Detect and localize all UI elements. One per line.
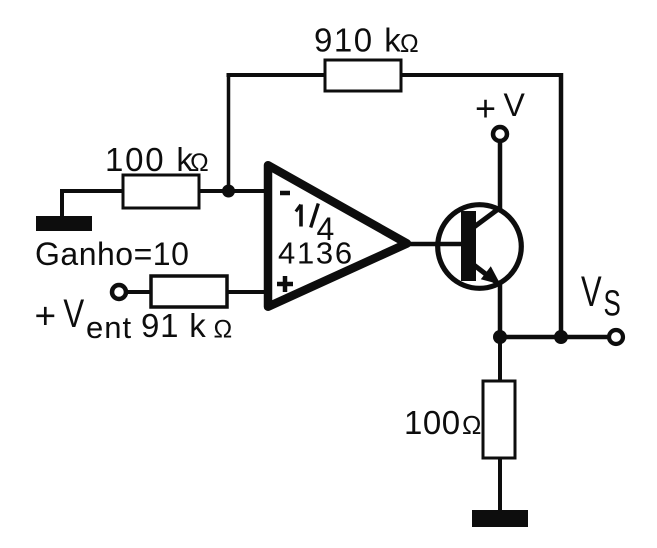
svg-text:910 k: 910 k — [314, 22, 402, 59]
wire 100 ohm resistor to ground — [498, 457, 502, 512]
resistor 91 kOhm (non-inverting input) — [151, 276, 227, 307]
label 910 kOhm — [314, 22, 419, 59]
svg-text:V: V — [63, 291, 84, 336]
wire feedback top horizontal — [227, 73, 564, 77]
label 1/4 — [299, 205, 303, 227]
resistor 910 kOhm (feedback) — [325, 60, 401, 91]
terminal +V supply — [493, 127, 507, 141]
svg-text:V: V — [504, 87, 526, 123]
base bar — [461, 211, 476, 281]
wire inverting node vertical riser — [227, 73, 231, 192]
op-amp U1 1/4 4136 — [268, 165, 407, 307]
terminal input Vent — [112, 285, 126, 299]
svg-text:Ω: Ω — [214, 316, 233, 344]
svg-text:S: S — [604, 283, 621, 323]
emitter arrowhead — [481, 266, 501, 284]
svg-text:+: + — [35, 295, 57, 336]
node junction feedback/output — [554, 330, 568, 344]
transistor Q1 — [438, 205, 522, 289]
wire right feedback vertical — [559, 73, 564, 337]
svg-text:Ω: Ω — [400, 30, 419, 58]
collector stroke — [470, 207, 501, 230]
svg-text:Ω: Ω — [462, 410, 481, 440]
label 91 kOhm — [141, 307, 232, 344]
wire ground drop left — [60, 189, 64, 217]
wire non-inverting input horizontal — [126, 290, 267, 294]
wire output horizontal to Vs terminal — [498, 335, 609, 340]
op-amp minus sign — [280, 191, 290, 196]
label Vs — [581, 267, 621, 324]
svg-text:4136: 4136 — [278, 236, 354, 271]
svg-text:V: V — [581, 267, 602, 315]
label +Vent — [35, 291, 133, 345]
node junction emitter/output — [493, 330, 507, 344]
node junction inverting input — [222, 185, 235, 198]
wire emitter vertical — [498, 282, 503, 339]
wire junction to 100 ohm resistor — [498, 337, 502, 382]
label 100 Ohm — [404, 404, 481, 441]
svg-text:Ω: Ω — [190, 149, 209, 177]
svg-text:ent: ent — [86, 310, 132, 345]
svg-text:Ganho=10: Ganho=10 — [35, 236, 189, 272]
ground (left, inverting input) — [36, 216, 92, 231]
resistor 100 Ohm (emitter load) — [483, 381, 515, 458]
wire inverting input horizontal — [62, 189, 265, 193]
svg-text:100 k: 100 k — [105, 141, 195, 178]
svg-text:100: 100 — [404, 404, 461, 441]
emitter stroke — [470, 262, 500, 285]
terminal output Vs — [609, 330, 623, 344]
svg-text:91 k: 91 k — [141, 307, 207, 344]
wire collector vertical — [498, 140, 503, 210]
label +V — [475, 87, 526, 128]
op-amp plus sign — [277, 282, 293, 287]
ground (bottom, emitter load) — [472, 510, 528, 527]
resistor 100 kOhm (inverting input) — [123, 175, 199, 208]
svg-text:+: + — [475, 87, 496, 128]
wire op-amp output to base — [406, 242, 462, 247]
label 100 kOhm — [105, 141, 209, 178]
